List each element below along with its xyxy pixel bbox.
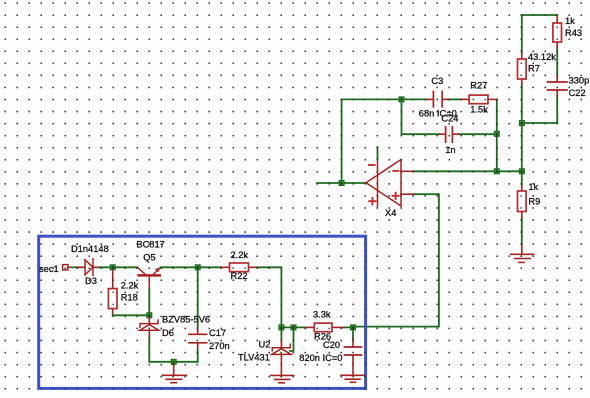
op-amp inverting input mark <box>393 170 398 172</box>
junction minus net right <box>519 169 524 174</box>
junction node C <box>195 265 200 270</box>
wire Q5 base down <box>148 289 150 315</box>
svg-text:2.2k: 2.2k <box>231 250 249 260</box>
svg-text:sec1: sec1 <box>39 264 59 274</box>
diode D3 <box>77 259 99 276</box>
wire plus input net <box>353 194 439 326</box>
wire C17 to ground node <box>174 350 198 362</box>
resistor R18 <box>108 270 117 315</box>
wire R43 to C22 <box>556 48 558 77</box>
wire R22 down to node D <box>258 267 281 327</box>
shunt regulator U2 <box>272 340 291 376</box>
svg-text:R43: R43 <box>565 28 582 38</box>
blue subcircuit box <box>39 236 366 388</box>
junction C24 right <box>494 131 499 136</box>
resistor R22 <box>221 263 258 272</box>
capacitor C20 <box>344 339 361 375</box>
svg-text:R27: R27 <box>470 81 487 91</box>
junction node D <box>279 325 284 330</box>
svg-text:BC817: BC817 <box>136 239 164 249</box>
wire D6 to ground node <box>149 337 173 362</box>
junction bottom rail <box>519 121 524 126</box>
wire node C to R22 <box>200 266 221 268</box>
wire C17 branch <box>197 267 199 328</box>
wire port to D3 <box>72 266 81 268</box>
junction output node <box>339 180 344 185</box>
svg-text:C20: C20 <box>323 340 340 350</box>
svg-text:C17: C17 <box>209 328 226 338</box>
junction feedback top <box>399 97 404 102</box>
wire R9 bottom <box>521 217 523 244</box>
svg-text:2.2k: 2.2k <box>121 280 139 290</box>
svg-text:D1n4148: D1n4148 <box>71 244 109 254</box>
svg-text:270n: 270n <box>209 341 230 351</box>
junction node B <box>147 313 152 318</box>
wire bottom rail R43 branch <box>522 122 557 124</box>
wire C20 top <box>352 327 354 339</box>
svg-text:BZV85-5V6: BZV85-5V6 <box>162 315 210 325</box>
svg-text:C22: C22 <box>569 88 586 98</box>
resistor R43 <box>553 15 562 48</box>
svg-text:3.3k: 3.3k <box>313 309 331 319</box>
wire D3 to node A <box>99 266 137 268</box>
junction node E <box>350 325 355 330</box>
wire opamp vminus stub <box>377 147 379 159</box>
resistor R7 <box>518 54 527 84</box>
wire R9 top <box>521 171 523 186</box>
capacitor C3 <box>427 92 448 107</box>
wire output stub <box>317 182 366 184</box>
wire top rail R43/R7 <box>522 15 557 54</box>
op-amp minus power mark <box>369 164 375 166</box>
junction node A <box>110 265 115 270</box>
wire C3 to R27 <box>448 98 461 100</box>
zener D6 <box>140 318 159 338</box>
op-amp noninverting input mark <box>393 193 399 199</box>
svg-text:D3: D3 <box>85 276 97 286</box>
svg-text:330p: 330p <box>569 76 590 86</box>
wire U2 cathode <box>280 327 282 339</box>
svg-text:TLV431: TLV431 <box>238 352 270 362</box>
wire node down to minus net <box>496 134 498 171</box>
wire minus input net <box>413 170 522 172</box>
junction center dots <box>112 99 523 363</box>
wire feedback top <box>342 98 428 100</box>
wire R26 to node E <box>344 326 353 328</box>
wire R27 corner down <box>496 99 498 133</box>
transistor Q5 <box>138 267 161 289</box>
wire node to minus net <box>521 123 523 171</box>
wire R7 lower to bottom rail <box>521 84 523 123</box>
svg-text:D6: D6 <box>162 328 174 338</box>
junction ground node <box>171 359 176 364</box>
svg-text:1n: 1n <box>445 145 455 155</box>
svg-text:1k: 1k <box>528 182 538 192</box>
wire R18 bottom to node B <box>113 314 150 316</box>
wire C24 node down <box>402 99 440 134</box>
capacitor C22 <box>548 76 567 96</box>
capacitor C24 <box>440 127 459 142</box>
wire output left vertical <box>341 99 343 183</box>
svg-text:C3: C3 <box>431 76 443 86</box>
resistor R27 <box>461 95 497 104</box>
svg-text:R18: R18 <box>121 292 138 302</box>
svg-text:43.12k: 43.12k <box>528 52 556 62</box>
ground D6/C17 <box>162 364 186 383</box>
ground R9 <box>511 244 534 262</box>
svg-text:R7: R7 <box>528 64 540 74</box>
op-amp plus power mark <box>369 198 375 204</box>
svg-text:1k: 1k <box>565 16 575 26</box>
svg-text:820n IC=0: 820n IC=0 <box>299 353 342 363</box>
ground C20 <box>341 375 364 382</box>
port sec1 <box>63 265 72 270</box>
junction minus net mid <box>494 169 499 174</box>
svg-text:R9: R9 <box>528 196 540 206</box>
svg-text:R22: R22 <box>231 271 248 281</box>
resistor R9 <box>518 186 527 217</box>
wire C22 to bottom rail <box>556 96 558 123</box>
svg-text:X4: X4 <box>385 208 396 218</box>
resistor R26 <box>307 323 345 332</box>
op-amp X4 <box>366 159 413 207</box>
svg-text:Q5: Q5 <box>143 252 155 262</box>
junction ref tap <box>291 325 296 330</box>
wire node D to R26 <box>281 326 306 328</box>
svg-text:C24: C24 <box>441 113 458 123</box>
svg-text:U2: U2 <box>259 339 271 349</box>
ground U2 <box>271 375 294 382</box>
wire ref tap down <box>290 327 294 351</box>
wire C24 right <box>458 133 496 135</box>
svg-text:1.5k: 1.5k <box>470 104 488 114</box>
wire Q5 emitter to node C <box>161 266 198 268</box>
capacitor C17 <box>189 328 207 350</box>
